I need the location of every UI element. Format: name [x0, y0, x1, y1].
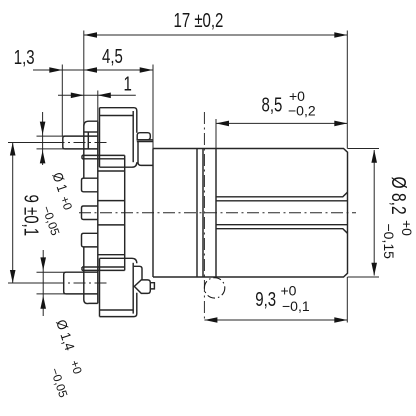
top pin centerline	[11, 142, 107, 144]
collar under nub	[137, 140, 153, 142]
pin base edge	[87, 132, 89, 149]
contact bump 3	[82, 233, 98, 247]
svg-text:4,5: 4,5	[102, 45, 123, 68]
dimension Ø8,2	[348, 149, 415, 278]
step to barrel	[138, 142, 153, 166]
main centerline	[79, 212, 356, 214]
dimension Ø1	[39, 112, 75, 238]
dimension Ø1,4	[40, 250, 84, 400]
dimension 17 ±0,2	[84, 9, 348, 149]
top pin edge extensions	[37, 136, 65, 149]
barrel outline	[153, 149, 348, 278]
groove wall 1	[196, 149, 198, 278]
svg-text:9,3: 9,3	[255, 288, 276, 311]
lower latch hook (pentagon)	[134, 266, 155, 293]
dimension 1,3	[14, 46, 84, 136]
svg-text:17 ±0,2: 17 ±0,2	[174, 9, 224, 32]
bore line upper outer with chamfer	[216, 192, 348, 197]
svg-text:+0: +0	[281, 282, 297, 298]
svg-text:−0,15: −0,15	[381, 224, 397, 260]
dimension 8,5	[216, 88, 347, 148]
dimension 4,5	[84, 45, 153, 149]
flange top piece lower edge	[84, 131, 98, 133]
svg-text:−0,1: −0,1	[282, 298, 310, 314]
upper latch nub	[137, 133, 153, 166]
dimension 1	[58, 73, 136, 121]
inner shoulder	[215, 149, 217, 278]
bottom pin edge extensions	[37, 272, 67, 294]
svg-text:8,5: 8,5	[262, 93, 283, 116]
bottom pin	[37, 272, 98, 294]
bore line lower inner	[216, 224, 347, 226]
groove wall 2	[202, 149, 204, 278]
dimension 9 ±0,1	[8, 143, 63, 284]
svg-text:−0,2: −0,2	[288, 103, 316, 119]
seal ring circle (phantom)	[204, 278, 224, 298]
shoulder face	[152, 149, 154, 278]
upper latch arm	[100, 108, 137, 168]
svg-text:1,3: 1,3	[14, 46, 35, 69]
hook side rect	[150, 283, 154, 289]
lower latch arm	[100, 258, 137, 316]
bottom pin centerline	[11, 282, 107, 284]
bore line upper inner	[216, 200, 347, 202]
contact bump 2	[82, 206, 98, 220]
svg-text:9 ±0,1: 9 ±0,1	[20, 195, 43, 237]
top thin plate	[82, 155, 125, 158]
bottom thin plate	[82, 267, 125, 270]
svg-text:Ø 8,2: Ø 8,2	[388, 177, 410, 215]
flange plate	[84, 121, 98, 303]
svg-text:1: 1	[124, 73, 132, 96]
contact bump 1	[82, 178, 98, 192]
panel plane centerline	[203, 112, 205, 322]
svg-text:+0: +0	[399, 220, 415, 236]
insert body	[98, 155, 125, 270]
top pin	[37, 136, 98, 149]
lower step line	[134, 266, 142, 280]
dimension 9,3	[204, 277, 347, 323]
bore line lower outer with chamfer	[216, 229, 348, 234]
